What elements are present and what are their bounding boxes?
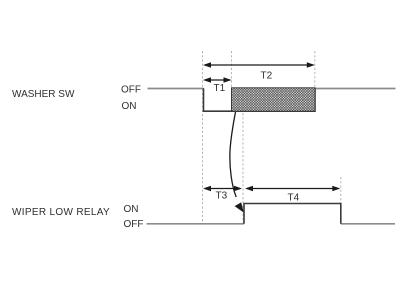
svg-text:T4: T4 [288, 193, 300, 204]
wire relay OFF baseline left [147, 223, 245, 225]
wire washer OFF baseline left [148, 88, 204, 90]
wire washer OFF baseline right [315, 88, 396, 90]
hatched indeterminate region [232, 88, 316, 111]
svg-text:T2: T2 [261, 71, 273, 82]
wire washer ON pulse [204, 88, 316, 111]
dimension arrow T1 [203, 77, 232, 82]
dashed guide line at relay ON edge [242, 113, 244, 224]
dimension arrow T4 [245, 186, 340, 191]
svg-text:WASHER SW: WASHER SW [12, 89, 75, 100]
dimension arrow T2 [203, 62, 315, 67]
svg-text:ON: ON [122, 101, 137, 112]
causality curve from washer switch release to relay turn-on [230, 112, 236, 197]
dashed guide line at relay OFF edge [340, 177, 342, 224]
svg-text:T3: T3 [216, 191, 228, 202]
svg-text:ON: ON [124, 204, 139, 215]
wire relay ON pulse [244, 204, 341, 224]
dashed guide line at T2 end [314, 51, 316, 88]
svg-text:OFF: OFF [124, 219, 144, 230]
svg-text:WIPER LOW RELAY: WIPER LOW RELAY [12, 207, 110, 218]
wire relay OFF baseline right [341, 223, 395, 225]
dashed guide line at T1 end [231, 51, 233, 88]
dimension arrow T3 [203, 186, 242, 191]
svg-text:T1: T1 [214, 83, 226, 94]
dashed guide line at washer ON edge [202, 51, 204, 224]
svg-text:OFF: OFF [121, 85, 141, 96]
causality curve arrowhead [235, 202, 244, 212]
